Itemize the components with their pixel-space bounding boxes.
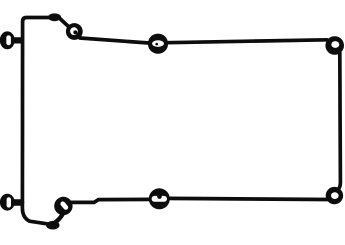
wire: right vertical edge bbox=[337, 53, 340, 191]
wire: top segment E2 to E3 bbox=[167, 40, 327, 43]
eyelet E4 (bottom right corner) bbox=[326, 187, 343, 204]
eyelet E5 (bottom middle, x~159) bbox=[149, 188, 170, 209]
eyelet E2 (top middle, x~158) bbox=[148, 34, 168, 54]
eyelet E1 (top, x~74) bbox=[66, 23, 83, 40]
wire: tail from E6 down to bottom tab bbox=[55, 214, 63, 223]
wire: slope from top tab into eyelet E1 bbox=[59, 18, 69, 27]
wire: bottom segment E4 to E5 bbox=[168, 198, 328, 199]
eyelet E7 (far left top) with stub bbox=[0, 31, 21, 49]
wire: bottom segment E5 to E6 with jog bbox=[72, 199, 151, 202]
tab T1 (top bump) bbox=[48, 13, 61, 21]
eyelet E8 (far left bottom) with stub bbox=[0, 194, 21, 211]
tab T2 (bottom bump) bbox=[46, 221, 59, 230]
eyelet E6 (bottom left-middle, x~63) bbox=[54, 197, 72, 215]
wire: top edge + left side + bottom-left run bbox=[22, 18, 48, 224]
eyelet E3 (top right corner) bbox=[325, 36, 344, 55]
wire: top segment E1 to E2 bbox=[80, 38, 149, 43]
